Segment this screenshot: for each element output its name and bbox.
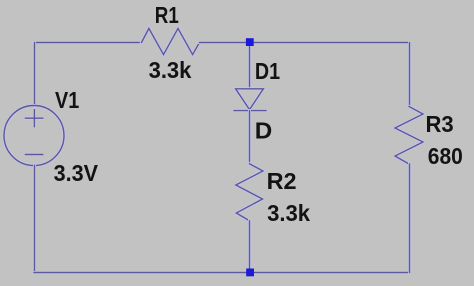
resistor R3	[395, 107, 423, 165]
svg-text:3.3k: 3.3k	[149, 57, 192, 83]
wire right vertical lower (R3 to bottom wire)	[408, 164, 411, 273]
wire left vertical upper (top wire to V1)	[33, 43, 36, 106]
node A junction square (top middle)	[246, 38, 254, 46]
wire right vertical upper (top wire to R3)	[408, 43, 411, 107]
svg-text:V1: V1	[55, 87, 79, 113]
svg-text:R2: R2	[267, 168, 297, 194]
svg-text:D1: D1	[255, 58, 280, 84]
wire middle vertical (diode cathode to R2)	[248, 111, 251, 164]
diode D1 cathode bar	[234, 109, 266, 112]
node B junction square (bottom middle)	[246, 269, 254, 277]
svg-text:3.3k: 3.3k	[267, 200, 310, 226]
wire top-right horizontal (R1 through node A to R3 top)	[200, 41, 410, 44]
wire middle vertical (R2 to node B)	[248, 221, 251, 272]
voltage source V1 circle	[4, 106, 64, 166]
svg-text:D: D	[255, 118, 272, 144]
wire left vertical lower (V1 to bottom wire)	[33, 165, 36, 272]
wire top-left horizontal (V1 top to R1)	[34, 41, 142, 44]
wire middle vertical (node A to diode anode)	[248, 43, 251, 89]
resistor R2	[236, 164, 263, 221]
V1 minus sign	[25, 153, 42, 156]
svg-text:3.3V: 3.3V	[54, 160, 99, 186]
svg-text:R1: R1	[155, 2, 179, 28]
resistor R1	[142, 28, 200, 54]
diode D1 triangle	[236, 89, 264, 110]
svg-text:680: 680	[428, 143, 463, 169]
wire bottom horizontal	[34, 271, 410, 274]
svg-text:R3: R3	[426, 111, 454, 137]
V1 plus sign	[25, 110, 42, 127]
